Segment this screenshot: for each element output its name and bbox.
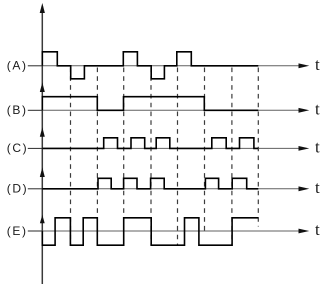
dashed timeline 1 <box>70 68 72 246</box>
arrowhead axis B <box>299 108 310 113</box>
waveform B <box>42 97 258 111</box>
waveform D <box>42 178 258 189</box>
dashed timeline 3 <box>123 68 125 246</box>
dashed timeline 6 <box>204 68 206 232</box>
svg-text:(E): (E) <box>7 224 28 238</box>
time axis row B <box>42 109 301 111</box>
svg-text:t: t <box>315 178 320 197</box>
up arrowhead row C <box>40 127 45 137</box>
leader line (B) <box>28 109 43 111</box>
arrowhead axis E <box>299 229 310 234</box>
svg-text:t: t <box>315 220 320 239</box>
svg-text:t: t <box>315 99 320 118</box>
svg-text:t: t <box>315 55 320 74</box>
leader line (C) <box>28 147 43 149</box>
up arrowhead row B <box>40 82 45 92</box>
up arrowhead row D <box>40 167 45 177</box>
arrowhead axis D <box>299 186 310 191</box>
svg-text:(C): (C) <box>7 141 28 155</box>
vertical amplitude axis <box>41 6 43 284</box>
dashed timeline 7 <box>231 68 233 246</box>
time axis row C <box>42 147 301 149</box>
svg-text:(D): (D) <box>7 182 28 196</box>
time axis row D <box>42 188 301 190</box>
leader line (E) <box>28 230 43 232</box>
arrowhead axis A <box>299 63 310 68</box>
waveform C <box>42 138 258 149</box>
arrowhead axis C <box>299 146 310 151</box>
svg-text:(B): (B) <box>7 103 28 117</box>
dashed timeline 2 <box>96 68 98 246</box>
up arrowhead row E <box>40 215 45 223</box>
waveform E (bipolar) <box>42 218 258 245</box>
leader line (A) <box>28 65 43 67</box>
time axis row E <box>42 230 301 232</box>
leader line (D) <box>28 188 43 190</box>
dashed timeline 5 <box>177 68 179 246</box>
dashed timeline 8 <box>257 68 259 227</box>
arrowhead vertical axis top <box>40 3 45 13</box>
waveform A (ternary) <box>42 52 258 79</box>
dashed timeline 4 <box>150 68 152 246</box>
svg-text:(A): (A) <box>7 59 28 73</box>
time axis row A <box>42 65 301 67</box>
svg-text:t: t <box>315 137 320 156</box>
